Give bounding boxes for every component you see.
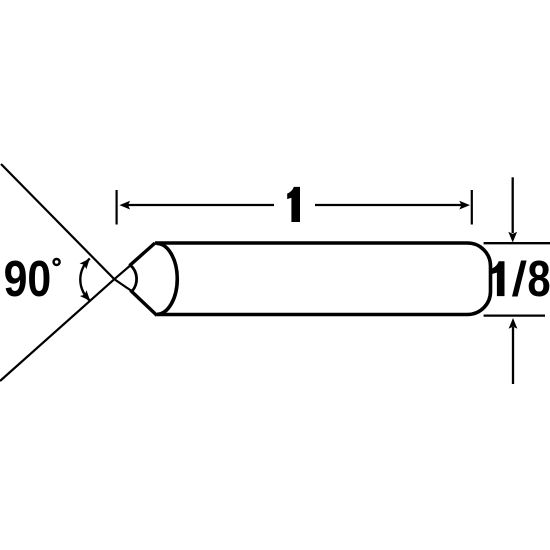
diameter dimension top arrowhead (508, 232, 517, 243)
cone base ellipse arc (157, 243, 178, 314)
cone tip small arc (131, 265, 137, 291)
diameter label digit 1 (492, 261, 505, 296)
angle extension line upper-left (1, 164, 132, 291)
cylinder body (155, 243, 491, 315)
length dimension line left segment (126, 204, 274, 206)
cone tip lower edge (131, 290, 158, 315)
diameter dimension top arrow line (512, 177, 514, 233)
cone tip upper edge (130, 243, 156, 266)
diameter label slash (512, 261, 527, 297)
svg-text:90: 90 (4, 249, 52, 306)
length dimension right arrowhead (459, 201, 470, 210)
length dimension right tick (471, 190, 473, 225)
length label 1 (287, 187, 300, 222)
angle extension line lower-left (0, 266, 130, 382)
angle arc arrowhead top (80, 259, 90, 270)
diameter dimension bottom arrowhead (509, 318, 518, 329)
svg-text:8: 8 (527, 250, 550, 307)
length dimension left arrowhead (119, 201, 130, 210)
degree symbol of angle label (54, 259, 60, 265)
diameter extension line top (484, 242, 550, 244)
angle arc arrowhead bottom (80, 290, 90, 301)
diameter extension line bottom (484, 314, 545, 316)
diameter dimension bottom arrow line (512, 327, 514, 384)
length dimension left tick (115, 190, 117, 225)
angle dimension arc (80, 259, 90, 301)
length dimension line right segment (315, 204, 462, 206)
